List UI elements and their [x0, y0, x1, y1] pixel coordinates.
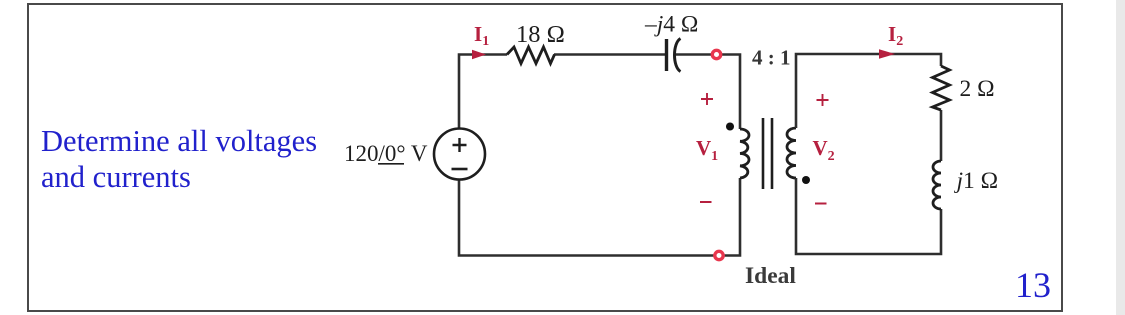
dot mark primary — [726, 123, 734, 131]
dot mark secondary — [802, 176, 810, 184]
wire: secondary loop — [796, 54, 941, 254]
page number 13 — [1015, 267, 1051, 304]
prompt text — [41, 124, 317, 195]
V1 minus — [700, 201, 712, 203]
svg-text:4 : 1: 4 : 1 — [752, 46, 791, 70]
svg-text:Ideal: Ideal — [745, 263, 796, 289]
current arrow I2 — [879, 49, 895, 59]
capacitor -j4 ohm — [665, 39, 668, 71]
svg-text:I2: I2 — [888, 22, 903, 49]
transformer primary winding L1 — [740, 129, 749, 178]
resistor 2 ohm — [933, 66, 950, 110]
svg-text:18 Ω: 18 Ω — [516, 21, 565, 48]
wire: primary loop left/top/bottom — [459, 55, 740, 256]
svg-text:j1 Ω: j1 Ω — [954, 168, 999, 194]
terminal node top (red) — [712, 50, 720, 58]
current arrow I1 — [472, 50, 486, 60]
angle underline — [378, 163, 404, 165]
resistor 18 ohm — [507, 47, 555, 64]
V1 plus — [701, 93, 713, 105]
svg-text:V1: V1 — [696, 136, 718, 164]
svg-text:120/0° V: 120/0° V — [344, 141, 428, 166]
right gray strip — [1116, 0, 1125, 315]
source minus sign — [452, 168, 468, 171]
svg-text:–j4 Ω: –j4 Ω — [644, 12, 698, 38]
V2 plus — [817, 94, 829, 106]
transformer secondary winding L2 — [787, 128, 796, 178]
svg-text:V2: V2 — [813, 136, 835, 164]
V2 minus — [815, 203, 827, 205]
terminal node bottom (red) — [715, 251, 723, 259]
voltage source Vs — [434, 129, 485, 180]
svg-text:2 Ω: 2 Ω — [960, 76, 995, 102]
inductor j1 ohm — [933, 161, 941, 209]
svg-text:I1: I1 — [474, 22, 489, 49]
transformer core — [763, 118, 772, 189]
source plus sign — [453, 138, 467, 152]
